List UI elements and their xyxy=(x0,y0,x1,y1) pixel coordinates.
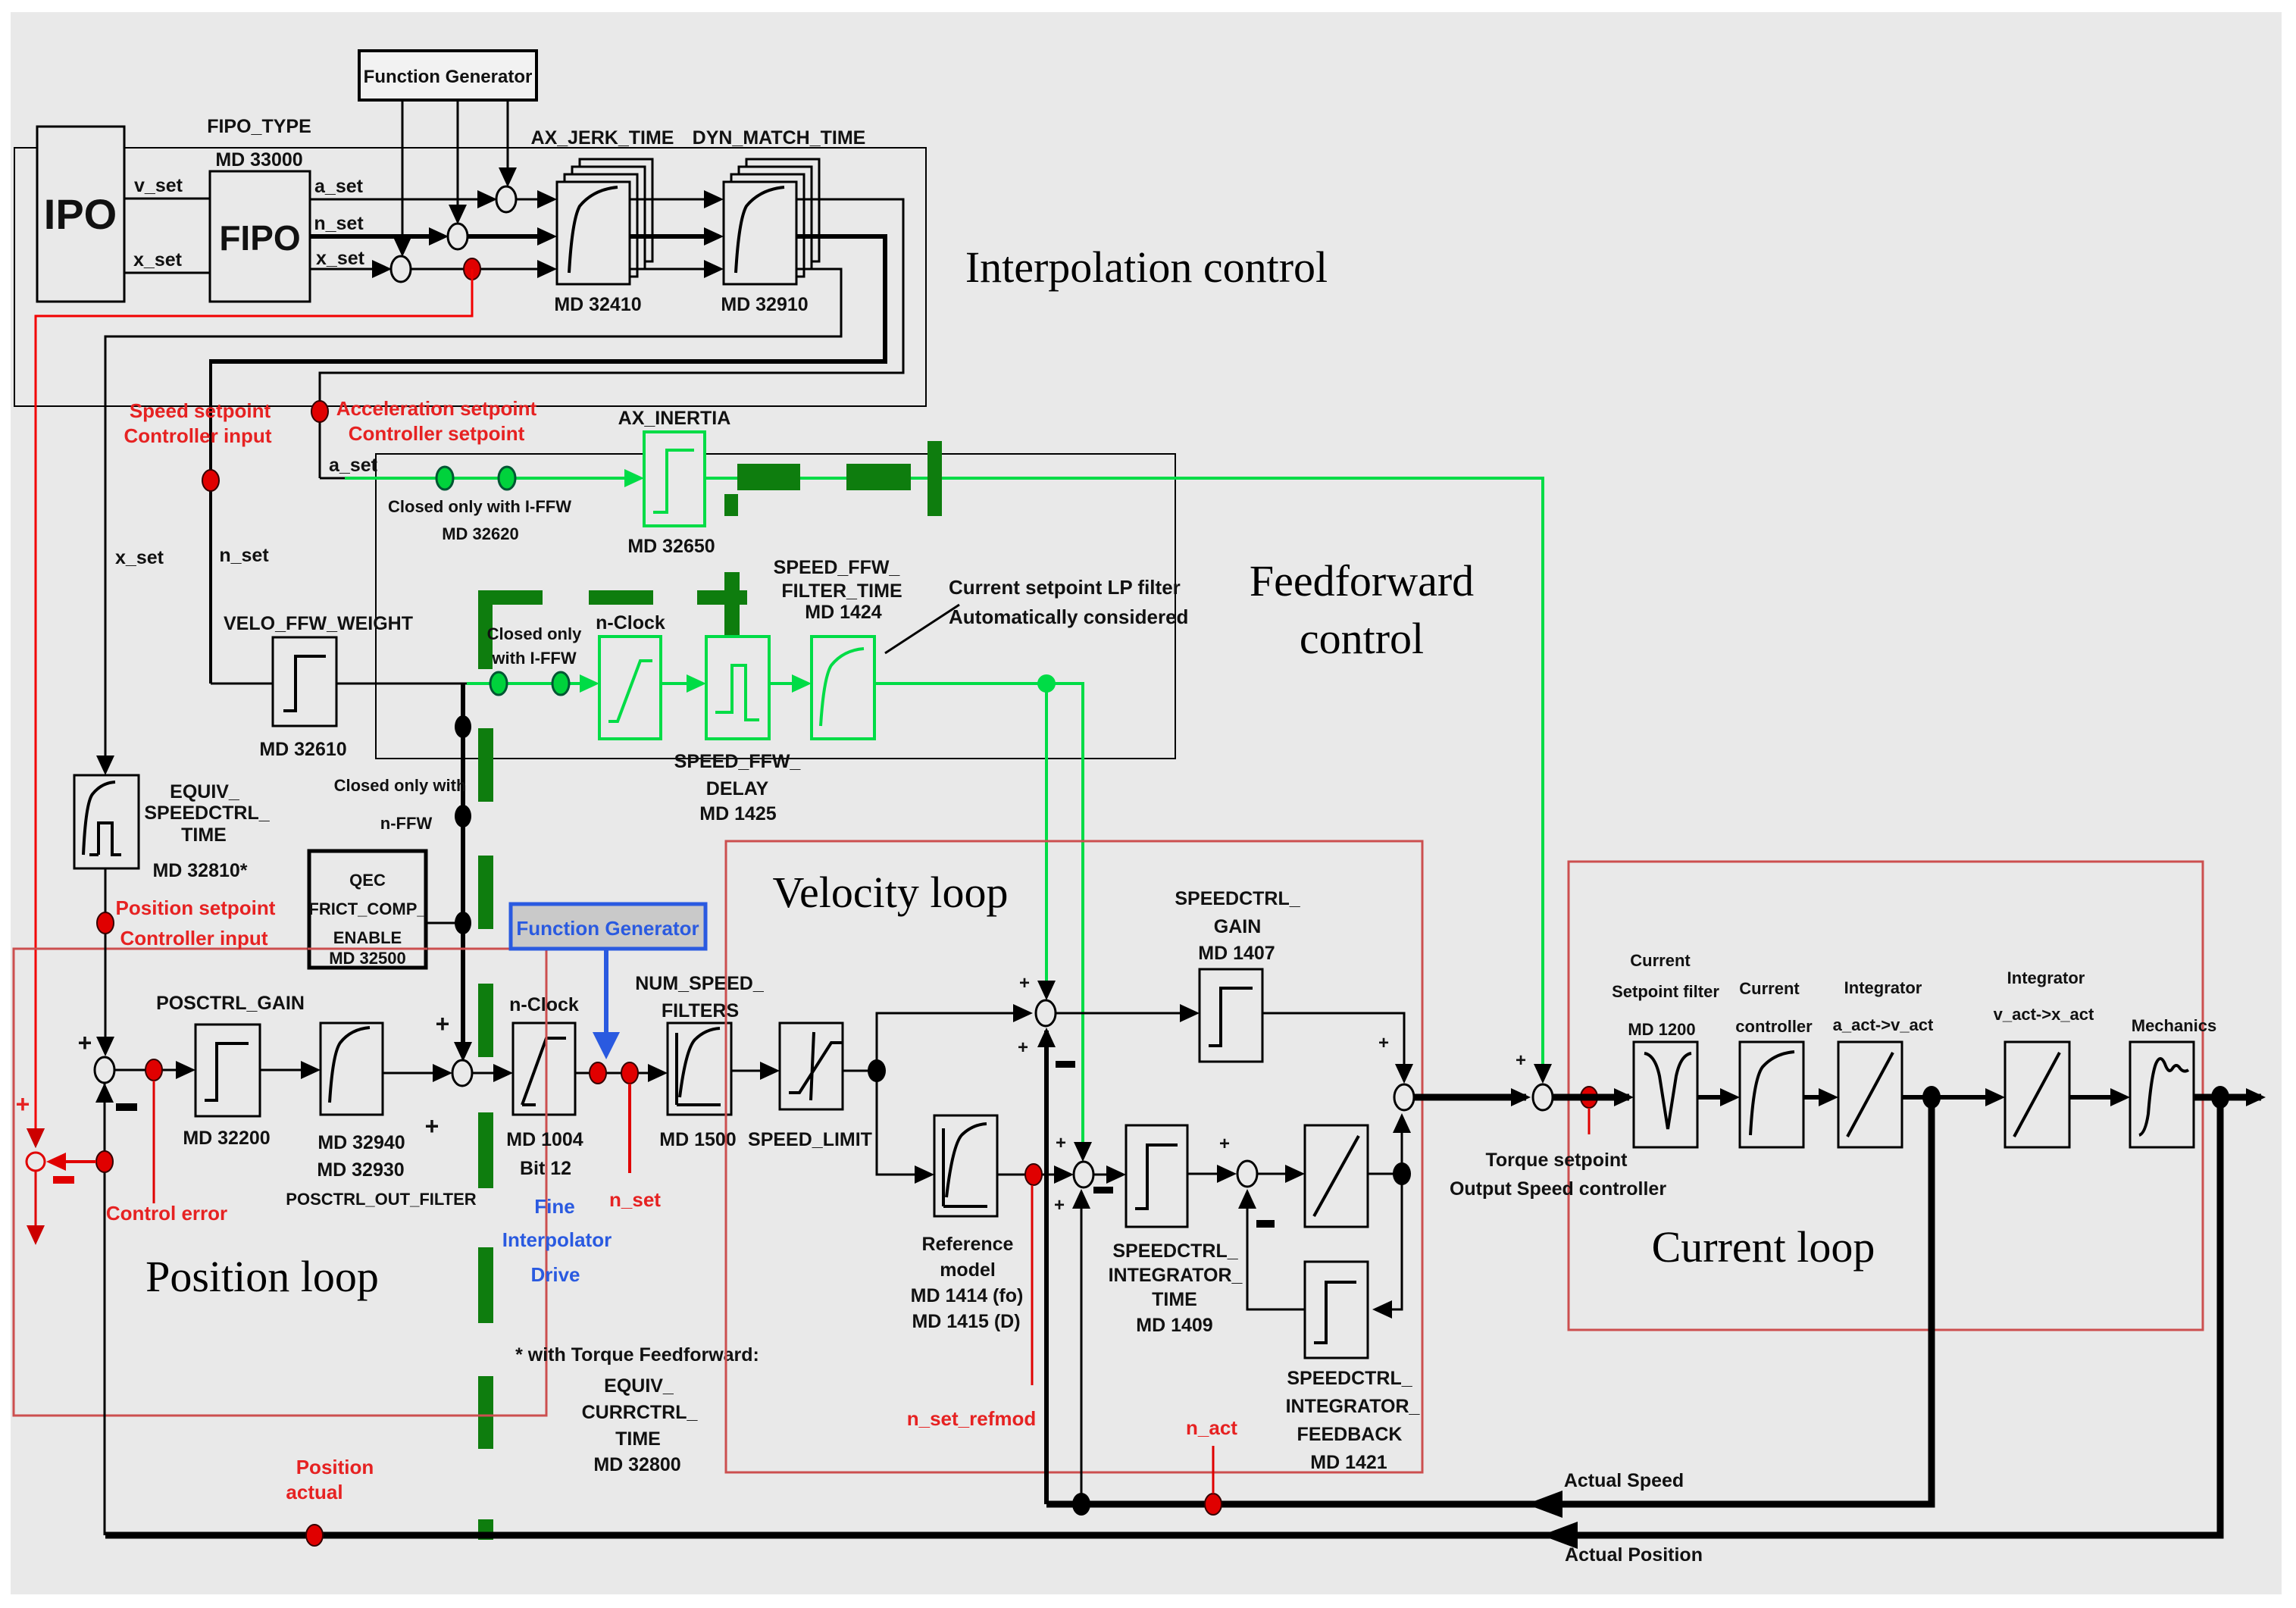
svg-text:+: + xyxy=(436,1010,450,1037)
wires AX_JERK to DYN_MATCH xyxy=(630,199,719,201)
svg-text:Acceleration setpoint: Acceleration setpoint xyxy=(336,397,537,420)
block n-Clock MD1004 Bit12 xyxy=(513,1023,575,1115)
svg-text:NUM_SPEED_: NUM_SPEED_ xyxy=(635,973,765,994)
wire a_set row xyxy=(310,199,493,201)
svg-text:POSCTRL_GAIN: POSCTRL_GAIN xyxy=(156,993,305,1014)
node dot xyxy=(455,805,471,827)
svg-text:SPEEDCTRL_: SPEEDCTRL_ xyxy=(144,802,270,824)
SEC1 xyxy=(211,408,1552,1540)
svg-text:FILTERS: FILTERS xyxy=(662,1000,739,1021)
wire refmodel to sum3 xyxy=(997,1174,1069,1176)
block IPO xyxy=(37,127,124,302)
minus mark xyxy=(1056,1061,1075,1068)
svg-text:Integrator: Integrator xyxy=(2007,968,2085,987)
svg-text:Function Generator: Function Generator xyxy=(516,917,699,940)
wire to SPEED_FFW_DELAY xyxy=(661,682,702,685)
node red dot n_set xyxy=(621,1062,638,1084)
contact closed only with I-FFW 1 xyxy=(436,467,453,490)
svg-text:AX_JERK_TIME: AX_JERK_TIME xyxy=(531,127,674,149)
svg-text:AX_INERTIA: AX_INERTIA xyxy=(618,408,731,429)
node junction actual speed xyxy=(1922,1086,1941,1109)
node dot QEC tap xyxy=(455,912,471,934)
block integrator a_act to v_act xyxy=(1838,1042,1902,1147)
node red dot n_set_refmod xyxy=(1025,1164,1042,1185)
svg-text:MD 1421: MD 1421 xyxy=(1310,1452,1387,1473)
position loop border xyxy=(14,949,546,1416)
svg-text:MD 32940: MD 32940 xyxy=(317,1132,405,1153)
contact closed only with I-FFW 4 xyxy=(552,672,569,695)
svg-text:n_set: n_set xyxy=(314,213,364,234)
wire EQUIV to position sum xyxy=(105,868,107,1052)
svg-text:Controller input: Controller input xyxy=(124,424,272,447)
svg-text:MD 32650: MD 32650 xyxy=(627,536,715,557)
svg-text:a_set: a_set xyxy=(314,176,364,197)
summing junction reference xyxy=(1074,1162,1093,1187)
svg-text:IPO: IPO xyxy=(44,190,117,238)
svg-text:MD 1415 (D): MD 1415 (D) xyxy=(912,1311,1020,1332)
svg-text:MD 32800: MD 32800 xyxy=(593,1454,680,1475)
svg-text:SPEED_FFW_: SPEED_FFW_ xyxy=(774,557,901,578)
block SPEED_FFW_FILTER_TIME MD1424 (green) xyxy=(812,637,874,739)
wire sum5 to torque sum (thick) xyxy=(1414,1094,1526,1101)
node red dot after n-Clock xyxy=(590,1062,606,1084)
svg-text:n-Clock: n-Clock xyxy=(509,994,579,1015)
svg-text:MD 32930: MD 32930 xyxy=(317,1159,404,1181)
wire sum4 to integrator xyxy=(1257,1173,1300,1175)
svg-text:x_set: x_set xyxy=(115,547,164,568)
svg-text:Integrator: Integrator xyxy=(1844,978,1922,997)
svg-text:+: + xyxy=(1378,1033,1389,1053)
wire MD1409 to sum4 xyxy=(1187,1173,1232,1175)
wire a_set green to AX_INERTIA xyxy=(320,477,349,480)
wire sum2 to n-Clock xyxy=(472,1072,508,1075)
svg-text:SPEED_FFW_: SPEED_FFW_ xyxy=(674,751,802,772)
svg-text:Controller input: Controller input xyxy=(120,927,268,949)
svg-text:ENABLE: ENABLE xyxy=(333,928,402,947)
svg-text:Setpoint filter: Setpoint filter xyxy=(1612,982,1719,1001)
block FIPO xyxy=(210,171,310,302)
svg-text:+: + xyxy=(1054,1195,1065,1215)
svg-text:Drive: Drive xyxy=(530,1263,580,1286)
svg-text:Controller setpoint: Controller setpoint xyxy=(349,422,525,445)
wire Actual Speed feedback xyxy=(1046,1097,1932,1504)
wire n_set row (thick) xyxy=(310,234,444,239)
svg-text:Position loop: Position loop xyxy=(145,1252,379,1301)
node red dot torque setpoint xyxy=(1581,1087,1597,1108)
summing junction integrator xyxy=(1237,1161,1257,1187)
contact closed only with I-FFW 2 xyxy=(499,467,515,490)
svg-text:CURRCTRL_: CURRCTRL_ xyxy=(582,1402,699,1423)
block Function Generator (top) xyxy=(359,51,536,100)
wire gain to sum5 xyxy=(1262,1013,1404,1079)
dashed vertical dark green n-FFW xyxy=(478,728,493,802)
svg-text:v_act->x_act: v_act->x_act xyxy=(1994,1005,2094,1024)
svg-text:DELAY: DELAY xyxy=(706,778,769,799)
svg-text:Mechanics: Mechanics xyxy=(2132,1016,2217,1035)
wire FG to n_set sum xyxy=(457,100,459,219)
svg-text:+: + xyxy=(16,1090,30,1118)
wire n-Clock output xyxy=(575,1072,663,1075)
svg-text:* with Torque Feedforward:: * with Torque Feedforward: xyxy=(515,1344,759,1366)
block SPEEDCTRL_INTEGRATOR_TIME MD1409 xyxy=(1126,1125,1187,1227)
wire green to velocity sum xyxy=(1045,684,1048,995)
svg-text:n_set: n_set xyxy=(609,1188,661,1211)
svg-text:FRICT_COMP_: FRICT_COMP_ xyxy=(308,899,427,918)
svg-text:Automatically considered: Automatically considered xyxy=(949,605,1188,628)
svg-text:MD 32810*: MD 32810* xyxy=(152,860,247,881)
block NUM_SPEED_FILTERS MD1500 xyxy=(668,1023,731,1115)
svg-text:Closed only: Closed only xyxy=(487,624,582,643)
svg-text:Control error: Control error xyxy=(106,1202,227,1225)
svg-text:n_set: n_set xyxy=(219,545,269,566)
svg-text:MD 32620: MD 32620 xyxy=(442,524,519,543)
blue arrow xyxy=(604,949,608,1035)
SEC3 xyxy=(726,841,1531,1504)
red stub n_act xyxy=(1212,1446,1215,1494)
wire x_set sum to AX_JERK xyxy=(411,268,552,271)
svg-text:MD 1425: MD 1425 xyxy=(699,803,777,824)
red arrow to node xyxy=(50,1160,96,1163)
svg-text:SPEEDCTRL_: SPEEDCTRL_ xyxy=(1287,1368,1412,1389)
svg-text:Reference: Reference xyxy=(922,1234,1014,1255)
wire SPEED_LIMIT output xyxy=(843,1070,877,1072)
wire green n-FFW row xyxy=(467,682,595,685)
svg-text:n-Clock: n-Clock xyxy=(596,612,665,634)
summing junction n_set xyxy=(448,224,468,249)
svg-text:n-FFW: n-FFW xyxy=(380,814,433,833)
minus mark xyxy=(1093,1187,1113,1193)
wire torque sum to MD1200 (thick) xyxy=(1553,1094,1629,1101)
minus mark xyxy=(116,1103,137,1111)
SEC4 xyxy=(105,862,2266,1566)
svg-text:MD 32200: MD 32200 xyxy=(183,1128,270,1149)
velocity loop border xyxy=(726,841,1422,1472)
node red dot acceleration setpoint xyxy=(311,401,328,422)
filter block AX_JERK_TIME MD32410 (stacked) xyxy=(557,159,652,284)
svg-text:n_set_refmod: n_set_refmod xyxy=(907,1407,1037,1430)
wire n_set wraparound (thick) xyxy=(211,236,885,361)
wire to SPEED_FFW_FILTER xyxy=(769,682,807,685)
block integrator v_act to x_act xyxy=(2005,1042,2069,1147)
wire FG to a_set sum xyxy=(507,100,509,182)
wire QEC to n-FFW vertical xyxy=(426,922,463,924)
wire MD1421 to sum4 xyxy=(1247,1191,1305,1309)
node red dot position setpoint xyxy=(97,912,114,934)
red stub n_set_refmod xyxy=(1031,1185,1034,1385)
contact closed only with I-FFW 3 xyxy=(490,672,507,695)
wire v_set IPO-FIPO xyxy=(124,198,210,200)
svg-text:EQUIV_: EQUIV_ xyxy=(604,1375,674,1397)
svg-text:+: + xyxy=(425,1112,439,1140)
svg-text:+: + xyxy=(1219,1134,1230,1154)
svg-text:DYN_MATCH_TIME: DYN_MATCH_TIME xyxy=(693,127,866,149)
svg-text:control: control xyxy=(1300,614,1424,663)
wire actual position feedback up xyxy=(104,1083,106,1535)
wire to current controller xyxy=(1697,1095,1735,1100)
svg-text:model: model xyxy=(940,1259,996,1281)
wire Actual Position feedback xyxy=(105,1097,2220,1535)
node red dot position actual xyxy=(306,1525,323,1546)
wire to integrator 1 xyxy=(1803,1095,1834,1100)
svg-text:Current: Current xyxy=(1630,951,1691,970)
wire integrator1 output xyxy=(1902,1095,2000,1100)
block SPEEDCTRL_INTEGRATOR_FEEDBACK MD1421 xyxy=(1305,1262,1368,1358)
wire to mechanics xyxy=(2069,1095,2126,1100)
summing junction velocity 1 xyxy=(1036,1000,1056,1026)
svg-text:MD 1004: MD 1004 xyxy=(506,1129,583,1150)
svg-text:TIME: TIME xyxy=(615,1428,661,1450)
svg-text:Fine: Fine xyxy=(534,1195,574,1218)
wire red border overlay across n-Clock block xyxy=(546,1021,548,1116)
svg-text:EQUIV_: EQUIV_ xyxy=(170,781,240,802)
svg-text:MD 32610: MD 32610 xyxy=(259,739,346,760)
filter block DYN_MATCH_TIME MD32910 (stacked) xyxy=(724,159,819,284)
block Current Setpoint filter MD1200 xyxy=(1634,1042,1697,1147)
block Mechanics xyxy=(2130,1042,2194,1147)
svg-text:v_set: v_set xyxy=(134,175,183,196)
wire a_set sum to AX_JERK xyxy=(516,199,552,201)
wire to sum 2 xyxy=(383,1072,448,1075)
wire split to velocity sum xyxy=(877,1013,1028,1071)
svg-text:MD 1409: MD 1409 xyxy=(1136,1315,1212,1336)
wire x_set wraparound xyxy=(105,269,841,770)
svg-text:Closed only with I-FFW: Closed only with I-FFW xyxy=(388,497,571,516)
svg-text:with I-FFW: with I-FFW xyxy=(491,649,576,668)
block Function Generator (blue) xyxy=(511,904,705,949)
svg-text:Bit 12: Bit 12 xyxy=(520,1158,571,1179)
svg-text:Position setpoint: Position setpoint xyxy=(116,896,276,919)
node red dot control error tap xyxy=(96,1151,113,1172)
svg-text:+: + xyxy=(78,1029,92,1056)
svg-text:SPEEDCTRL_: SPEEDCTRL_ xyxy=(1175,888,1300,909)
wire feedback to MD1421 xyxy=(1377,1174,1402,1309)
svg-text:MD 33000: MD 33000 xyxy=(215,149,302,170)
svg-text:QEC: QEC xyxy=(349,871,386,890)
block POSCTRL_GAIN MD32200 xyxy=(196,1025,260,1116)
block POSCTRL_OUT_FILTER MD32940 MD32930 xyxy=(321,1023,383,1115)
node green junction xyxy=(1037,674,1056,693)
wire split to reference model xyxy=(877,1071,930,1175)
svg-text:TIME: TIME xyxy=(1152,1289,1197,1310)
svg-text:Feedforward: Feedforward xyxy=(1250,556,1474,605)
block SPEEDCTRL_GAIN MD1407 xyxy=(1200,969,1262,1062)
node dot xyxy=(455,715,471,738)
wire speed setpoint (red) xyxy=(36,269,472,1143)
red minus xyxy=(53,1176,74,1184)
dashes dark green on AX_INERTIA output xyxy=(737,464,800,490)
wire red border overlay across QEC xyxy=(308,948,427,950)
svg-text:Output Speed controller: Output Speed controller xyxy=(1450,1178,1666,1200)
wire n-FFW vertical black xyxy=(461,684,465,1057)
svg-text:Interpolation control: Interpolation control xyxy=(965,242,1328,292)
node red dot control error xyxy=(145,1059,162,1081)
block Current controller xyxy=(1740,1042,1803,1147)
svg-text:MD 1407: MD 1407 xyxy=(1198,943,1275,964)
summing junction a_set xyxy=(496,186,516,212)
wire green speed feedforward xyxy=(874,684,1083,1156)
wire n_set sum to AX_JERK (thick) xyxy=(468,234,552,239)
red arrow below node xyxy=(35,1171,37,1235)
svg-text:x_set: x_set xyxy=(133,249,183,271)
red stub torque setpoint xyxy=(1588,1108,1591,1134)
svg-text:VELO_FFW_WEIGHT: VELO_FFW_WEIGHT xyxy=(224,613,413,634)
dashes dark green corner xyxy=(478,590,543,605)
svg-text:+: + xyxy=(1019,973,1030,993)
interpolation control border xyxy=(14,148,926,406)
svg-text:FIPO: FIPO xyxy=(219,218,300,258)
svg-text:MD 1414 (fo): MD 1414 (fo) xyxy=(911,1285,1024,1306)
svg-text:TIME: TIME xyxy=(181,824,227,846)
SEC2 xyxy=(14,775,1033,1535)
svg-text:SPEED_LIMIT: SPEED_LIMIT xyxy=(748,1129,872,1150)
wire integrator to sum5 xyxy=(1368,1173,1402,1175)
wire sum3 to MD1409 xyxy=(1093,1174,1121,1176)
svg-text:MD 1424: MD 1424 xyxy=(805,602,882,623)
svg-text:Actual Speed: Actual Speed xyxy=(1564,1470,1684,1491)
block VELO_FFW_WEIGHT MD32610 xyxy=(273,637,336,726)
svg-text:MD 32500: MD 32500 xyxy=(329,949,406,968)
block SPEED_FFW_DELAY MD1425 (green) xyxy=(706,637,769,739)
block Reference model MD1414 MD1415 xyxy=(934,1115,997,1216)
wire a_set wraparound xyxy=(320,199,903,478)
svg-text:a_act->v_act: a_act->v_act xyxy=(1833,1015,1934,1034)
svg-text:MD 1200: MD 1200 xyxy=(1628,1020,1695,1039)
callout line xyxy=(885,605,959,653)
svg-text:Current loop: Current loop xyxy=(1652,1222,1875,1272)
red stub control error xyxy=(153,1081,155,1203)
svg-text:Current: Current xyxy=(1739,979,1800,998)
dashes dark green cross xyxy=(697,590,747,605)
svg-text:+: + xyxy=(1516,1050,1526,1071)
current loop border xyxy=(1569,862,2203,1330)
svg-text:controller: controller xyxy=(1735,1017,1813,1036)
wire x_set IPO-FIPO xyxy=(124,272,210,274)
wire FG to x_set sum xyxy=(402,100,404,252)
svg-text:GAIN: GAIN xyxy=(1214,916,1262,937)
svg-text:Torque setpoint: Torque setpoint xyxy=(1485,1150,1628,1171)
block QEC FRICT_COMP_ENABLE MD32500 xyxy=(309,851,426,968)
wire mechanics output xyxy=(2194,1094,2261,1101)
svg-text:Actual Position: Actual Position xyxy=(1565,1544,1703,1566)
node red dot n_act xyxy=(1205,1494,1222,1515)
summing junction x_set xyxy=(391,256,411,282)
svg-text:+: + xyxy=(1056,1133,1066,1153)
summing junction torque xyxy=(1533,1084,1553,1110)
wire n_act feedback up to sum1 xyxy=(1044,1031,1049,1504)
summing junction position xyxy=(95,1057,114,1083)
node red dot x_set row xyxy=(464,258,480,280)
node junction xyxy=(1393,1162,1411,1185)
svg-text:MD 32910: MD 32910 xyxy=(721,294,808,315)
svg-text:n_act: n_act xyxy=(1186,1416,1237,1439)
svg-text:Current setpoint LP filter: Current setpoint LP filter xyxy=(949,576,1181,599)
wire green torque feedforward to current loop xyxy=(705,478,1543,1076)
svg-text:FEEDBACK: FEEDBACK xyxy=(1297,1424,1403,1445)
block integrator velocity xyxy=(1305,1125,1368,1227)
node red dot n_set vertical xyxy=(202,470,219,491)
block n-Clock ramp (green) xyxy=(599,637,661,739)
block EQUIV_SPEEDCTRL_TIME MD32810 xyxy=(74,775,139,868)
wire to POSCTRL_OUT_FILTER xyxy=(260,1069,316,1071)
node junction n_act sum3 xyxy=(1072,1493,1090,1516)
block SPEED_LIMIT xyxy=(780,1023,843,1109)
wire VELO output to n-FFW node xyxy=(336,683,470,685)
svg-text:actual: actual xyxy=(286,1481,343,1503)
svg-text:x_set: x_set xyxy=(316,248,365,269)
svg-text:+: + xyxy=(1018,1037,1028,1058)
svg-text:Function Generator: Function Generator xyxy=(364,67,533,87)
feedforward control border xyxy=(376,454,1175,759)
svg-text:POSCTRL_OUT_FILTER: POSCTRL_OUT_FILTER xyxy=(286,1190,476,1209)
svg-text:MD 32410: MD 32410 xyxy=(554,294,641,315)
wire n_act to sum3 xyxy=(1081,1191,1083,1504)
svg-text:INTEGRATOR_: INTEGRATOR_ xyxy=(1109,1265,1243,1286)
svg-text:SPEEDCTRL_: SPEEDCTRL_ xyxy=(1112,1240,1238,1262)
node junction xyxy=(868,1059,886,1082)
wire sum to POSCTRL_GAIN xyxy=(114,1069,191,1071)
svg-text:a_set: a_set xyxy=(329,455,378,476)
svg-text:Closed only with: Closed only with xyxy=(334,776,467,795)
wire to SPEED_LIMIT xyxy=(731,1070,775,1072)
svg-text:Interpolator: Interpolator xyxy=(502,1228,612,1251)
wire x_set row xyxy=(310,268,387,271)
svg-text:Speed setpoint: Speed setpoint xyxy=(130,399,271,422)
red stub n_set xyxy=(628,1084,631,1173)
svg-text:Position: Position xyxy=(296,1456,374,1478)
red evaluation node xyxy=(27,1153,45,1171)
summing junction 2 xyxy=(452,1060,472,1086)
svg-text:Velocity loop: Velocity loop xyxy=(773,868,1009,917)
svg-text:FIPO_TYPE: FIPO_TYPE xyxy=(207,116,311,137)
minus mark xyxy=(1256,1220,1275,1228)
summing junction velocity output xyxy=(1394,1084,1414,1110)
svg-text:INTEGRATOR_: INTEGRATOR_ xyxy=(1286,1396,1421,1417)
wire sum1 to SPEEDCTRL_GAIN xyxy=(1056,1012,1195,1015)
svg-text:FILTER_TIME: FILTER_TIME xyxy=(781,580,902,602)
node junction actual position xyxy=(2211,1086,2229,1109)
block AX_INERTIA MD32650 xyxy=(644,432,705,526)
wire n_set into VELO block xyxy=(211,683,273,685)
